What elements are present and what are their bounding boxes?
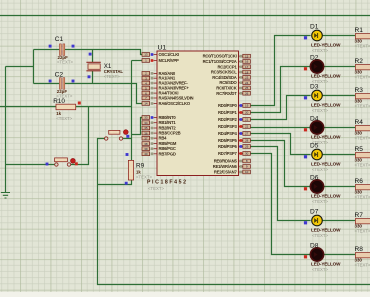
push button near R9 <box>105 130 130 140</box>
wire R10 MCLR row <box>0 106 132 108</box>
svg-text:<TEXT>: <TEXT> <box>355 162 370 167</box>
svg-text:LED-YELLOW: LED-YELLOW <box>311 73 341 78</box>
svg-text:D2: D2 <box>310 55 319 62</box>
svg-text:LED-YELLOW: LED-YELLOW <box>311 134 341 139</box>
svg-text:D3: D3 <box>310 84 319 91</box>
svg-text:D5: D5 <box>310 143 319 150</box>
svg-text:RC3/SCK/SCL: RC3/SCK/SCL <box>211 70 237 75</box>
resistor R1 <box>355 27 370 48</box>
svg-text:34: 34 <box>144 121 148 125</box>
pin 2 RA0/AN0 <box>142 71 176 76</box>
svg-text:R8: R8 <box>355 246 364 253</box>
svg-text:33: 33 <box>144 116 148 120</box>
wire ground rail left vertical <box>5 67 7 193</box>
svg-text:35: 35 <box>144 126 148 130</box>
capacitor C1 <box>49 36 75 64</box>
crystal X1 <box>86 53 123 80</box>
pin 10 RE2/CS/AN7 <box>214 170 250 175</box>
svg-text:RD0/PSP0: RD0/PSP0 <box>218 103 238 108</box>
pin 33 RB0/INT0 <box>142 115 176 120</box>
svg-text:10: 10 <box>245 170 249 174</box>
wire MCLR pin1 stub <box>132 60 143 62</box>
svg-text:R1: R1 <box>355 27 364 34</box>
capacitor C2 <box>49 72 75 99</box>
LED D7 <box>304 209 341 238</box>
svg-text:<TEXT>: <TEXT> <box>57 60 73 65</box>
svg-text:22: 22 <box>245 125 249 129</box>
pin 13 OSC1/CLKI <box>142 52 179 57</box>
svg-text:RB1/INT1: RB1/INT1 <box>159 120 177 125</box>
svg-text:D4: D4 <box>310 116 319 123</box>
svg-text:40: 40 <box>144 152 148 156</box>
pin 39 RB6/PGC <box>142 146 176 151</box>
pin 26 RC7/RX/DT <box>216 91 250 96</box>
svg-text:<TEXT>: <TEXT> <box>312 108 328 113</box>
svg-text:RA5/AN4/SS/LVDIN: RA5/AN4/SS/LVDIN <box>159 96 194 101</box>
resistor R8 <box>355 246 370 267</box>
LED D4 <box>304 116 341 145</box>
svg-text:<TEXT>: <TEXT> <box>56 116 72 121</box>
LED D6 <box>304 175 341 204</box>
wire D8 to R8 <box>323 254 356 256</box>
resistor R7 <box>355 212 370 233</box>
wire RD6 to D7 <box>251 147 311 221</box>
svg-text:<TEXT>: <TEXT> <box>355 194 370 199</box>
LED D2 <box>304 55 341 84</box>
svg-text:<TEXT>: <TEXT> <box>355 262 370 267</box>
resistor R6 <box>355 178 370 199</box>
svg-text:36: 36 <box>144 131 148 135</box>
wire C1-C2 ground link <box>6 50 34 84</box>
wire RD4 to D5 <box>251 134 311 155</box>
svg-text:30: 30 <box>245 152 249 156</box>
pin 15 RC0/T1OSO/T1CKI <box>203 54 251 59</box>
pin 35 RB2/INT2 <box>142 126 176 131</box>
wire VDD top rail <box>0 15 370 17</box>
svg-text:RB7/PGD: RB7/PGD <box>159 151 176 156</box>
svg-text:R4: R4 <box>355 119 364 126</box>
svg-text:RD1/PSP1: RD1/PSP1 <box>218 110 238 115</box>
pin 34 RB1/INT1 <box>142 120 176 125</box>
svg-text:RC7/RX/DT: RC7/RX/DT <box>216 91 237 96</box>
wire D3 to R3 <box>323 95 356 97</box>
svg-text:<TEXT>: <TEXT> <box>312 48 328 53</box>
svg-text:LED-YELLOW: LED-YELLOW <box>311 42 341 47</box>
svg-text:<TEXT>: <TEXT> <box>104 74 120 79</box>
svg-text:R7: R7 <box>355 212 364 219</box>
LED D5 <box>304 143 341 172</box>
op U1 PIC18F452 microcontroller body <box>147 45 239 191</box>
svg-text:17: 17 <box>245 65 249 69</box>
pin 7 RA5/AN4/SS/LVDIN <box>142 96 194 101</box>
svg-text:24: 24 <box>245 81 249 85</box>
svg-text:<TEXT>: <TEXT> <box>355 43 370 48</box>
pin 36 RB3/CCP2B <box>142 131 181 136</box>
svg-text:18: 18 <box>245 70 249 74</box>
wire crystal bottom stub <box>92 71 94 84</box>
svg-text:<TEXT>: <TEXT> <box>312 167 328 172</box>
svg-text:D1: D1 <box>310 24 319 31</box>
pin 4 RA2/AN2/VREF- <box>142 81 188 86</box>
svg-text:39: 39 <box>144 147 148 151</box>
resistor R9 <box>125 153 153 185</box>
svg-text:RD7/PSP7: RD7/PSP7 <box>218 151 238 156</box>
svg-text:13: 13 <box>144 53 148 57</box>
pin 22 RD3/PSP3 <box>218 124 250 129</box>
svg-text:21: 21 <box>245 118 249 122</box>
svg-text:23: 23 <box>245 76 249 80</box>
svg-text:RD6/PSP6: RD6/PSP6 <box>218 144 238 149</box>
svg-text:D7: D7 <box>310 209 319 216</box>
pin 5 RA3/AN3/VREF+ <box>142 86 189 91</box>
svg-text:R6: R6 <box>355 178 364 185</box>
svg-text:R3: R3 <box>355 87 364 94</box>
svg-text:LED-YELLOW: LED-YELLOW <box>311 161 341 166</box>
pin 40 RB7/PGD <box>142 151 176 156</box>
svg-text:RD2/PSP2: RD2/PSP2 <box>218 117 238 122</box>
wire D6 to R6 <box>323 186 356 188</box>
svg-text:U1: U1 <box>158 45 167 52</box>
svg-text:C2: C2 <box>55 72 64 79</box>
pin 24 RC5/SDO <box>219 80 250 85</box>
svg-text:C1: C1 <box>55 36 64 43</box>
svg-text:RD3/PSP3: RD3/PSP3 <box>218 124 238 129</box>
svg-text:LED-YELLOW: LED-YELLOW <box>311 193 341 198</box>
svg-text:PIC18F452: PIC18F452 <box>147 180 188 186</box>
pin 18 RC3/SCK/SCL <box>211 70 251 75</box>
svg-text:RA6/OSC2/CLKO: RA6/OSC2/CLKO <box>159 101 191 106</box>
svg-text:<TEXT>: <TEXT> <box>355 74 370 79</box>
svg-text:RE2/CS/AN7: RE2/CS/AN7 <box>214 170 238 175</box>
svg-text:<TEXT>: <TEXT> <box>148 186 164 191</box>
svg-text:R2: R2 <box>355 58 364 65</box>
ground <box>1 193 10 199</box>
svg-text:RE1/WR/AN6: RE1/WR/AN6 <box>213 164 238 169</box>
svg-text:LED-YELLOW: LED-YELLOW <box>311 102 341 107</box>
svg-text:LED-YELLOW: LED-YELLOW <box>311 227 341 232</box>
svg-text:14: 14 <box>144 102 148 106</box>
pin 29 RD6/PSP6 <box>218 144 250 149</box>
svg-text:<TEXT>: <TEXT> <box>312 267 328 272</box>
svg-text:<TEXT>: <TEXT> <box>355 103 370 108</box>
svg-text:RC0/T1OSO/T1CKI: RC0/T1OSO/T1CKI <box>203 54 237 59</box>
pin 27 RD4/PSP4 <box>218 131 250 136</box>
svg-text:28: 28 <box>245 139 249 143</box>
wire RD0 to D1 <box>251 36 311 106</box>
pin 3 RA1/AN1 <box>142 76 176 81</box>
wire D7 to R7 <box>323 220 356 222</box>
push button lower-left <box>46 158 78 166</box>
pin 9 RE1/WR/AN6 <box>213 164 251 169</box>
svg-text:MCLR/VPP: MCLR/VPP <box>159 58 179 63</box>
wire crystal top stub <box>92 50 94 63</box>
wire R9 bottom link <box>98 180 132 185</box>
svg-text:38: 38 <box>144 142 148 146</box>
wire RD3 to D4 <box>251 127 311 129</box>
pin 20 RD1/PSP1 <box>218 110 250 115</box>
LED D1 <box>304 24 341 53</box>
wire RD1 to D2 <box>251 67 311 113</box>
svg-text:RC1/T1OSI/CCP2A: RC1/T1OSI/CCP2A <box>203 59 237 64</box>
wire D1 to R1 <box>323 35 356 37</box>
svg-text:R5: R5 <box>355 146 364 153</box>
svg-text:OSC1/CLKI: OSC1/CLKI <box>159 52 180 57</box>
svg-text:<TEXT>: <TEXT> <box>312 199 328 204</box>
svg-text:19: 19 <box>245 104 249 108</box>
wire RD2 to D3 <box>251 96 311 120</box>
wire button2 right riser <box>71 107 89 165</box>
svg-text:29: 29 <box>245 145 249 149</box>
svg-text:RD5/PSP5: RD5/PSP5 <box>218 138 238 143</box>
svg-text:RC5/SDO: RC5/SDO <box>219 80 237 85</box>
resistor R2 <box>355 58 370 79</box>
pin 8 RE0/RD/AN5 <box>214 159 251 164</box>
wire D5 to R5 <box>323 154 356 156</box>
bottom margin band <box>0 292 370 297</box>
svg-text:RC6/TX/CK: RC6/TX/CK <box>216 86 236 91</box>
pin 30 RD7/PSP7 <box>218 151 250 156</box>
resistor R3 <box>355 87 370 108</box>
resistor R10 <box>53 98 81 121</box>
wire button1 right stub <box>123 138 132 140</box>
wire C2 row to OSC2 pin14 <box>34 84 143 104</box>
svg-text:27: 27 <box>245 132 249 136</box>
wire D4 to R4 <box>323 127 356 129</box>
pin 23 RC4/SDI/SDA <box>212 75 250 80</box>
wire MCLR vertical to R9 <box>131 61 133 161</box>
pin 1 MCLR/VPP <box>142 58 179 63</box>
svg-text:37: 37 <box>144 136 148 140</box>
resistor R5 <box>355 146 370 167</box>
svg-text:R10: R10 <box>53 98 65 105</box>
wire D2 to R2 <box>323 66 356 68</box>
wire RD7 to D8 <box>251 154 311 255</box>
svg-text:LED-YELLOW: LED-YELLOW <box>311 261 341 266</box>
svg-text:RD4/PSP4: RD4/PSP4 <box>218 131 238 136</box>
svg-text:16: 16 <box>245 60 249 64</box>
svg-text:D6: D6 <box>310 175 319 182</box>
wire RB0 pin33 to button <box>132 118 143 135</box>
svg-text:<TEXT>: <TEXT> <box>355 135 370 140</box>
svg-text:25: 25 <box>245 86 249 90</box>
svg-text:20: 20 <box>245 111 249 115</box>
pin 38 RB5/PGM <box>142 141 177 146</box>
svg-text:RE0/RD/AN5: RE0/RD/AN5 <box>214 159 238 164</box>
wire C1 row to OSC1 pin13 <box>34 50 143 55</box>
svg-text:RB4: RB4 <box>159 136 168 141</box>
pin 16 RC1/T1OSI/CCP2A <box>203 59 251 64</box>
wire RD5 to D6 <box>251 141 311 187</box>
wire button2 left wire <box>6 164 55 166</box>
pin 25 RC6/TX/CK <box>216 86 250 91</box>
svg-text:RC4/SDI/SDA: RC4/SDI/SDA <box>212 75 237 80</box>
pin 6 RA4/T0CKI <box>142 91 178 96</box>
pin 14 RA6/OSC2/CLKO <box>142 101 191 106</box>
svg-text:15: 15 <box>245 54 249 58</box>
pin 17 RC2/CCP1 <box>217 64 250 69</box>
svg-text:26: 26 <box>245 92 249 96</box>
LED D8 <box>304 243 341 272</box>
resistor R4 <box>355 119 370 140</box>
pin 21 RD2/PSP2 <box>218 117 250 122</box>
svg-text:RC2/CCP1: RC2/CCP1 <box>217 64 237 69</box>
pin 28 RD5/PSP5 <box>218 138 250 143</box>
wire button1 left to ground bottom <box>98 139 370 285</box>
LED D3 <box>304 84 341 113</box>
pin 37 RB4 <box>142 136 167 141</box>
svg-text:<TEXT>: <TEXT> <box>312 233 328 238</box>
pin 19 RD0/PSP0 <box>218 103 250 108</box>
svg-text:D8: D8 <box>310 243 319 250</box>
svg-text:<TEXT>: <TEXT> <box>355 228 370 233</box>
